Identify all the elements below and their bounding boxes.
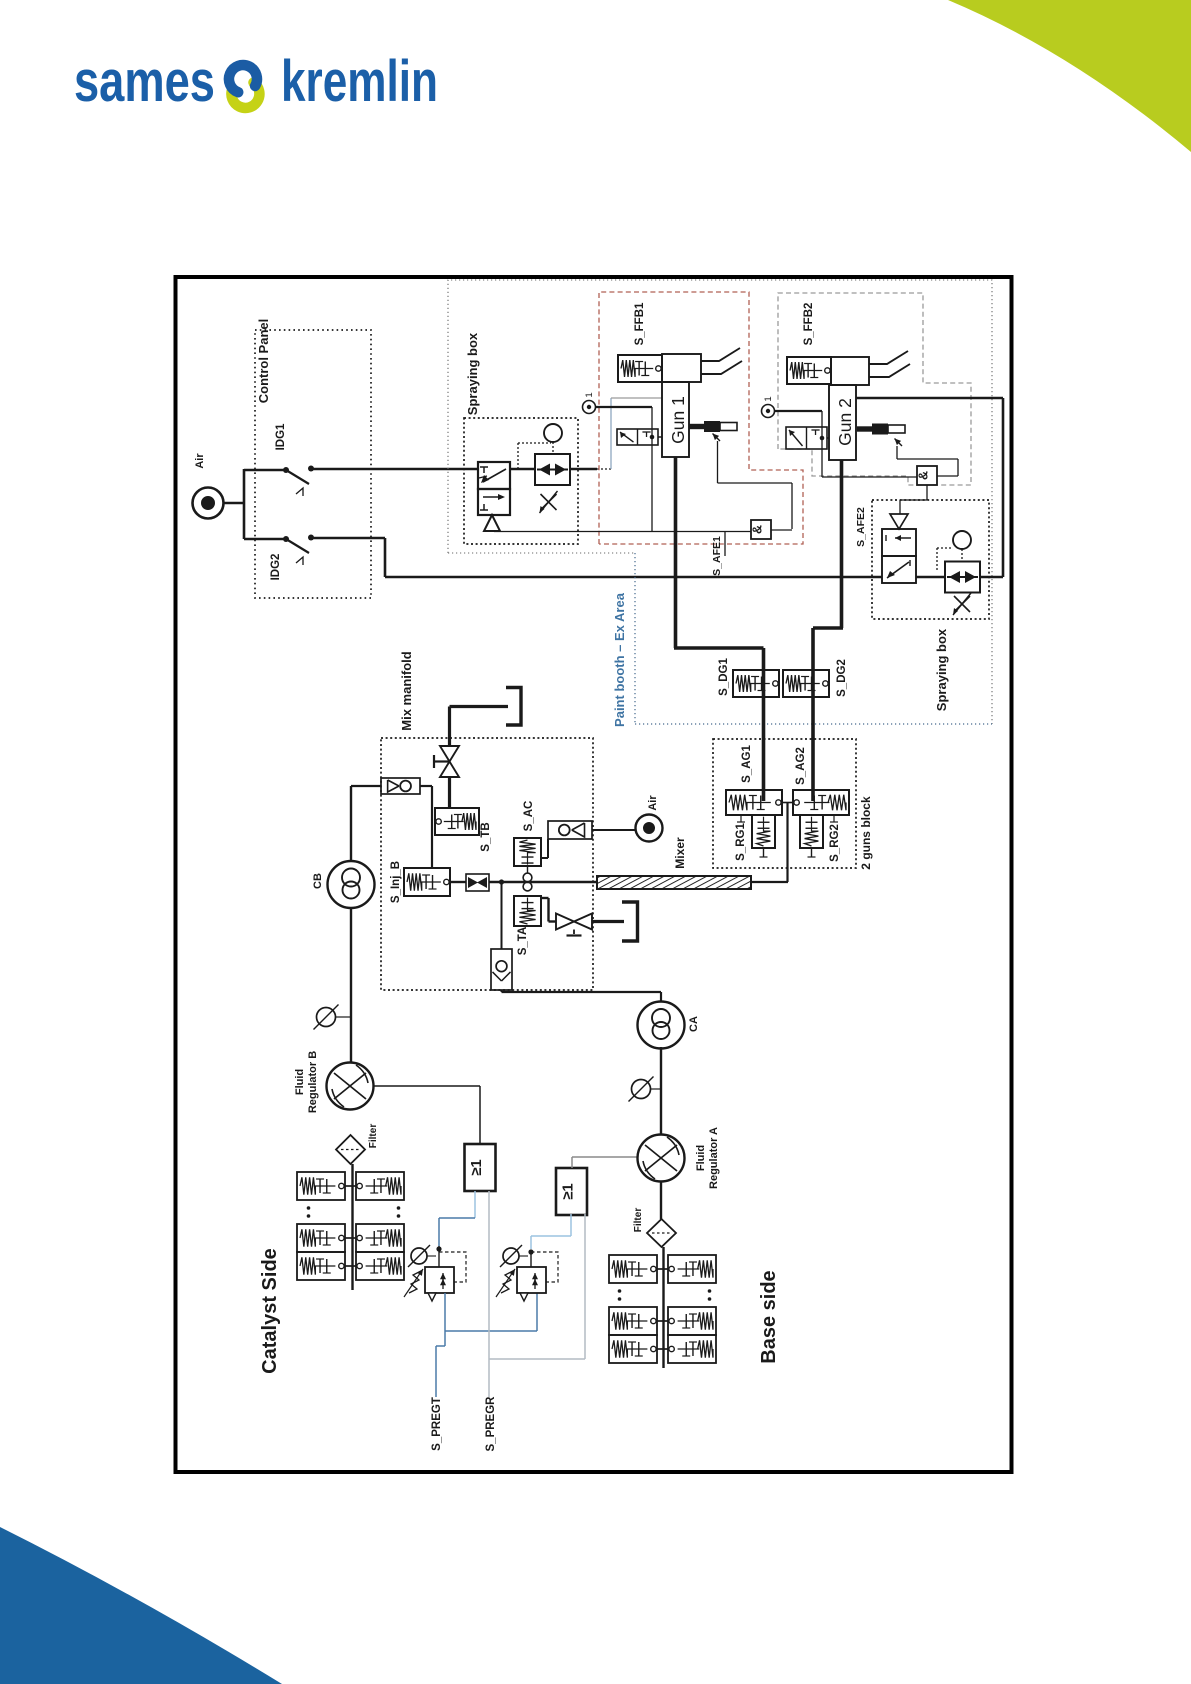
pump CA bbox=[638, 1002, 685, 1049]
svg-text:S_PREGR: S_PREGR bbox=[485, 1396, 497, 1452]
base valve bank bbox=[662, 1247, 664, 1368]
gun 1 paint line bbox=[674, 457, 678, 648]
control panel box bbox=[255, 330, 371, 598]
svg-text:Gun 2: Gun 2 bbox=[835, 398, 855, 446]
spraying boxes outer dotted boundary bbox=[448, 280, 992, 724]
svg-text:CA: CA bbox=[688, 1016, 700, 1032]
pilot valve gun 2 bbox=[786, 427, 827, 449]
blue corner swoosh bbox=[0, 1527, 282, 1684]
wire node1 to pilot valve gun1 bbox=[596, 406, 653, 408]
wire cylinder2 to and gate bbox=[896, 446, 898, 459]
node 1 indicator gun1 bbox=[583, 401, 596, 414]
node between AG valves bbox=[782, 802, 793, 804]
valve S_DG2 bbox=[783, 670, 829, 697]
OR gate 2 bbox=[556, 1168, 587, 1215]
switch IDG1 bbox=[244, 469, 286, 472]
gun 2 air cap bbox=[831, 357, 869, 385]
wire S_AFE1 net bbox=[494, 531, 751, 533]
svg-text:S_AG1: S_AG1 bbox=[741, 745, 753, 783]
valve S_FFB2 bbox=[787, 357, 831, 384]
svg-text:1: 1 bbox=[763, 396, 774, 401]
shuttle2 output line bbox=[980, 576, 1003, 578]
fluid regulator B bbox=[327, 1063, 374, 1110]
drain valve bbox=[556, 914, 574, 930]
paint booth boundary bbox=[634, 553, 636, 724]
gauge regulator R bbox=[503, 1248, 519, 1264]
svg-text:CB: CB bbox=[312, 873, 324, 889]
valve S_AC bbox=[514, 838, 541, 866]
svg-text:Catalyst Side: Catalyst Side bbox=[259, 1248, 281, 1374]
CB line down bbox=[350, 908, 352, 1063]
svg-text:S_PREGT: S_PREGT bbox=[431, 1397, 443, 1451]
svg-text:kremlin: kremlin bbox=[281, 49, 438, 114]
gauge regulator T bbox=[411, 1248, 427, 1264]
wire node1 to pilot valve gun2 bbox=[775, 410, 823, 412]
svg-text:≥1: ≥1 bbox=[560, 1183, 577, 1200]
svg-text:S_TA: S_TA bbox=[517, 927, 529, 956]
check valve to CA bbox=[499, 879, 504, 884]
filter B bbox=[336, 1135, 365, 1164]
pilot line S_PREGR bbox=[488, 1191, 490, 1397]
pilot valve gun 1 bbox=[617, 429, 658, 445]
wire to injector bbox=[431, 786, 433, 868]
svg-text:S_FFB2: S_FFB2 bbox=[803, 303, 815, 346]
svg-text:Filter: Filter bbox=[633, 1208, 644, 1233]
valve S_AG1 bbox=[726, 790, 782, 815]
manifold main line bbox=[450, 881, 466, 883]
valve S_RG2 bbox=[800, 815, 823, 848]
drain outlet bracket bbox=[622, 902, 638, 941]
air check valve bbox=[541, 857, 548, 859]
svg-text:Fluid: Fluid bbox=[695, 1145, 707, 1171]
filter A bbox=[647, 1219, 676, 1247]
svg-text:S_AC: S_AC bbox=[523, 801, 535, 832]
wire cylinder1 to and gate bbox=[717, 441, 719, 483]
gun 2 body bbox=[829, 385, 856, 460]
svg-text:Regulator A: Regulator A bbox=[708, 1127, 720, 1189]
fluid regulator A bbox=[638, 1135, 685, 1182]
throttle exhaust 1 bbox=[541, 494, 557, 510]
2 guns block box bbox=[713, 739, 856, 868]
svg-text:S_DG2: S_DG2 bbox=[836, 659, 848, 697]
trigger cylinder gun 1 bbox=[689, 424, 704, 429]
gauge CB line bbox=[317, 1008, 336, 1027]
CA line down bbox=[660, 1047, 662, 1135]
svg-text:IDG2: IDG2 bbox=[270, 554, 282, 581]
svg-text:Base side: Base side bbox=[758, 1270, 780, 1363]
svg-text:S_FFB1: S_FFB1 bbox=[634, 302, 646, 345]
shuttle valve 1 bbox=[535, 454, 570, 485]
pressure regulator R node bbox=[528, 1249, 533, 1254]
svg-text:Regulator B: Regulator B bbox=[307, 1051, 319, 1113]
shuttle1 output line bbox=[570, 468, 597, 470]
throttle exhaust 2 bbox=[954, 596, 970, 612]
gun 2 paint line bbox=[840, 460, 844, 628]
switch IDG2 bbox=[244, 538, 286, 541]
pilot line OR2 to regR bbox=[530, 1236, 532, 1249]
svg-text:S_TB: S_TB bbox=[480, 822, 492, 851]
spraying box 2 enclosure bbox=[872, 500, 989, 619]
valve S_RG1 outlet stub bbox=[763, 848, 765, 857]
valve S_DG1 bbox=[733, 670, 779, 697]
pilot line S_PREGT bbox=[444, 1293, 446, 1331]
svg-text:Air: Air bbox=[647, 795, 659, 811]
drain line bbox=[541, 897, 549, 899]
gun 2 air feed line bbox=[856, 397, 1003, 400]
svg-text:S_AG2: S_AG2 bbox=[795, 747, 807, 785]
wire OR2 to regulator A bbox=[571, 1157, 573, 1168]
svg-text:Paint booth – Ex Area: Paint booth – Ex Area bbox=[612, 592, 627, 727]
wire solvent to valve bbox=[450, 705, 509, 708]
wire air to switches bbox=[224, 502, 245, 505]
shuttle 2 pilot circle bbox=[953, 531, 971, 549]
and gate 1 bbox=[751, 520, 771, 539]
wire regA to filter A bbox=[660, 1181, 662, 1219]
mix manifold box bbox=[381, 738, 593, 990]
svg-text:Air: Air bbox=[194, 453, 206, 469]
OR gate 1 bbox=[465, 1144, 496, 1191]
wire IDG2 main air line bbox=[311, 537, 385, 540]
gun 1 air cap bbox=[662, 354, 701, 382]
pressure regulator R bbox=[517, 1267, 546, 1293]
gun 2 hoses bbox=[869, 351, 908, 364]
pump CB bbox=[350, 786, 352, 861]
check valve B inlet bbox=[351, 785, 381, 787]
spraying box 1 enclosure bbox=[464, 418, 578, 544]
gun 1 hoses bbox=[701, 348, 740, 361]
svg-text:S_AFE2: S_AFE2 bbox=[855, 507, 867, 547]
svg-text:&: & bbox=[751, 525, 765, 534]
svg-text:IDG1: IDG1 bbox=[275, 423, 287, 450]
svg-text:Filter: Filter bbox=[368, 1124, 379, 1149]
svg-text:≥1: ≥1 bbox=[468, 1159, 485, 1176]
wire S_AFE2 net bbox=[822, 476, 917, 478]
wire regB to OR gate 1 bbox=[374, 1085, 481, 1087]
wire mixer to guns block bbox=[751, 881, 788, 883]
svg-text:1: 1 bbox=[584, 392, 595, 397]
green corner swoosh bbox=[948, 0, 1191, 152]
svg-text:Spraying box: Spraying box bbox=[465, 332, 480, 415]
svg-text:Spraying box: Spraying box bbox=[934, 628, 949, 711]
valve S_FFB1 bbox=[618, 355, 662, 382]
gun 1 body bbox=[662, 382, 689, 457]
gun 2 dashed enclosure bbox=[778, 293, 971, 485]
trigger cylinder gun 2 bbox=[857, 426, 872, 431]
shuttle 1 pilot circle bbox=[544, 424, 562, 442]
gauge CA line bbox=[632, 1080, 651, 1099]
valve S_AG2 bbox=[793, 790, 849, 815]
node 1 indicator gun2 bbox=[762, 405, 775, 418]
shuttle valve 2 bbox=[945, 562, 980, 593]
pressure regulator T bbox=[425, 1267, 454, 1293]
air supply port bbox=[193, 488, 224, 519]
pilot line OR1 to regT bbox=[474, 1191, 476, 1218]
svg-text:S_Inj_B: S_Inj_B bbox=[390, 861, 402, 903]
wire valve1 to shuttle1 bbox=[510, 468, 535, 470]
valve S_Inj_B bbox=[404, 868, 450, 896]
valve S_TB bbox=[435, 808, 479, 835]
valve S_TA bbox=[514, 896, 541, 926]
wire solvent valve to S_TB bbox=[448, 777, 451, 808]
svg-text:&: & bbox=[917, 471, 931, 480]
schematic outer frame bbox=[176, 277, 1012, 1472]
pressure regulator T node bbox=[436, 1246, 441, 1251]
valve spraying box 1 bbox=[478, 462, 510, 489]
svg-text:S_RG1: S_RG1 bbox=[735, 823, 747, 861]
and gate 2 bbox=[917, 466, 937, 485]
catalyst valve bank bbox=[351, 1164, 353, 1290]
restrictor bbox=[466, 874, 489, 891]
wire IDG1 to spraying box 1 bbox=[311, 468, 478, 471]
svg-text:Mixer: Mixer bbox=[673, 837, 687, 869]
svg-text:S_DG1: S_DG1 bbox=[718, 658, 730, 696]
pilot line to gun 1 bbox=[610, 398, 612, 469]
svg-text:S_RG2: S_RG2 bbox=[829, 824, 841, 862]
solvent inlet bracket bbox=[506, 688, 521, 726]
svg-text:sames: sames bbox=[74, 49, 215, 114]
svg-text:2 guns block: 2 guns block bbox=[859, 796, 873, 870]
valve S_RG2 outlet stub bbox=[811, 848, 813, 857]
svg-text:S_AFE1: S_AFE1 bbox=[711, 536, 723, 576]
valve spraying box 2 bbox=[890, 514, 908, 529]
gun 1 dashed enclosure bbox=[599, 292, 803, 544]
valve S_RG1 bbox=[752, 815, 775, 848]
svg-text:Mix manifold: Mix manifold bbox=[399, 651, 414, 731]
mixer air port bbox=[636, 815, 663, 842]
wire valve2 to shuttle2 bbox=[916, 576, 945, 578]
svg-text:Control Panel: Control Panel bbox=[256, 319, 271, 404]
svg-text:Fluid: Fluid bbox=[294, 1069, 306, 1095]
svg-text:Gun 1: Gun 1 bbox=[668, 396, 688, 444]
logo S swirl bbox=[231, 83, 259, 108]
wire and2 to spraying valve 2 pilot bbox=[926, 485, 928, 500]
solvent shutoff valve bbox=[440, 746, 459, 762]
